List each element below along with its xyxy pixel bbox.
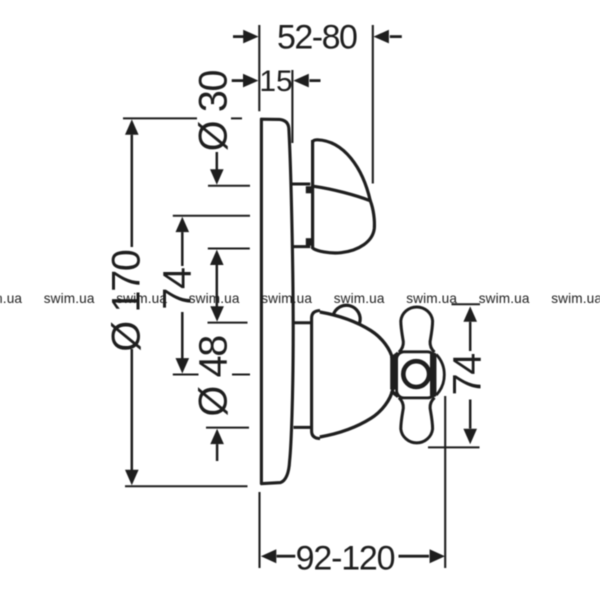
svg-text:52-80: 52-80 [277, 19, 357, 57]
svg-text:swim.ua: swim.ua [551, 291, 600, 306]
svg-text:swim.ua: swim.ua [189, 291, 240, 306]
extension line 52-80 right [372, 25, 374, 184]
handle top spoke [399, 307, 435, 352]
upper valve stem [292, 184, 312, 247]
extension line 92-120 left [258, 492, 260, 568]
svg-text:swim.ua: swim.ua [0, 291, 22, 306]
svg-text:swim.ua: swim.ua [406, 291, 457, 306]
lower escutcheon flange [294, 323, 311, 428]
svg-text:Ø 30: Ø 30 [192, 70, 236, 151]
svg-text:swim.ua: swim.ua [44, 291, 95, 306]
junction bottom [391, 391, 398, 397]
dimension 74 right [428, 304, 480, 447]
dimension diameter 170 left [123, 118, 248, 486]
handle bottom spoke [399, 398, 435, 443]
upper shut-off knob [313, 140, 375, 253]
dimension 92-120 [261, 549, 445, 563]
watermark row swim.ua [0, 291, 600, 306]
hub center circle [403, 361, 429, 387]
svg-text:15: 15 [259, 65, 292, 98]
junction band [390, 356, 397, 390]
extension line 92-120 right [444, 396, 446, 568]
svg-text:92-120: 92-120 [296, 539, 395, 577]
dimension 15 [232, 74, 321, 88]
extension line left (52-80 / 15 left) [258, 25, 260, 111]
lower escutcheon dome [320, 312, 394, 437]
handle hub [397, 352, 435, 398]
dimension 74 left [173, 216, 250, 375]
dimension diameter 48 [206, 306, 249, 461]
hub front bar [430, 353, 436, 397]
dimension 52-80 [233, 30, 402, 44]
svg-text:swim.ua: swim.ua [334, 291, 385, 306]
front spoke end cap [436, 355, 444, 396]
lower escutcheon lip [312, 311, 320, 439]
svg-text:swim.ua: swim.ua [479, 291, 530, 306]
svg-text:Ø 48: Ø 48 [192, 336, 236, 417]
rear spoke bump [333, 305, 360, 323]
wall plate [260, 118, 293, 484]
svg-text:74: 74 [446, 354, 490, 396]
svg-text:swim.ua: swim.ua [116, 291, 167, 306]
svg-text:swim.ua: swim.ua [261, 291, 312, 306]
junction top [391, 353, 398, 359]
extension line 15 right [291, 70, 293, 143]
dimension diameter 30 [208, 152, 250, 308]
